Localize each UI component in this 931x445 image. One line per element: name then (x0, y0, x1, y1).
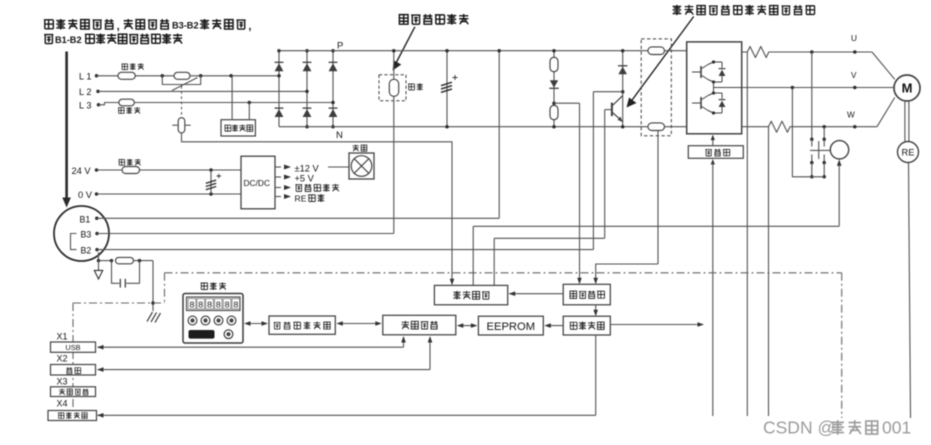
svg-text:U: U (851, 34, 857, 43)
svg-text:8: 8 (216, 300, 221, 310)
svg-text:B3-B2: B3-B2 (172, 21, 199, 31)
svg-text:V: V (851, 71, 857, 80)
svg-text:L 1: L 1 (79, 72, 91, 82)
svg-text:X3: X3 (57, 376, 68, 386)
svg-text:B1-B2: B1-B2 (55, 35, 82, 45)
svg-text:8: 8 (233, 300, 238, 310)
svg-text:B3: B3 (81, 230, 92, 240)
svg-text:RE: RE (295, 194, 307, 204)
svg-text:0 V: 0 V (78, 190, 93, 200)
svg-text:X1: X1 (57, 331, 68, 341)
svg-text:X2: X2 (57, 354, 68, 364)
svg-text:N: N (336, 130, 343, 141)
svg-text:L 2: L 2 (79, 87, 91, 97)
svg-text:001: 001 (882, 418, 911, 438)
svg-text:M: M (902, 81, 913, 96)
svg-text:L 3: L 3 (79, 101, 91, 111)
svg-text:B1: B1 (80, 214, 91, 224)
svg-text:USB: USB (65, 343, 80, 352)
svg-text:±12 V: ±12 V (295, 163, 320, 173)
svg-text:8: 8 (224, 300, 229, 310)
svg-text:24 V: 24 V (72, 166, 92, 176)
svg-text:EEPROM: EEPROM (487, 321, 536, 333)
svg-text:8: 8 (198, 300, 203, 310)
svg-text:P: P (337, 41, 343, 52)
svg-text:X4: X4 (57, 399, 68, 409)
svg-text:+5 V: +5 V (295, 173, 315, 183)
svg-text:8: 8 (207, 300, 212, 310)
svg-text:B2: B2 (81, 245, 92, 255)
svg-text:8: 8 (189, 300, 194, 310)
svg-text:W: W (847, 111, 855, 120)
svg-text:,: , (248, 21, 251, 33)
svg-text:CSDN @: CSDN @ (763, 418, 835, 438)
svg-text:DC/DC: DC/DC (244, 178, 271, 188)
svg-text:RE: RE (902, 148, 915, 158)
svg-text:,: , (117, 21, 120, 33)
